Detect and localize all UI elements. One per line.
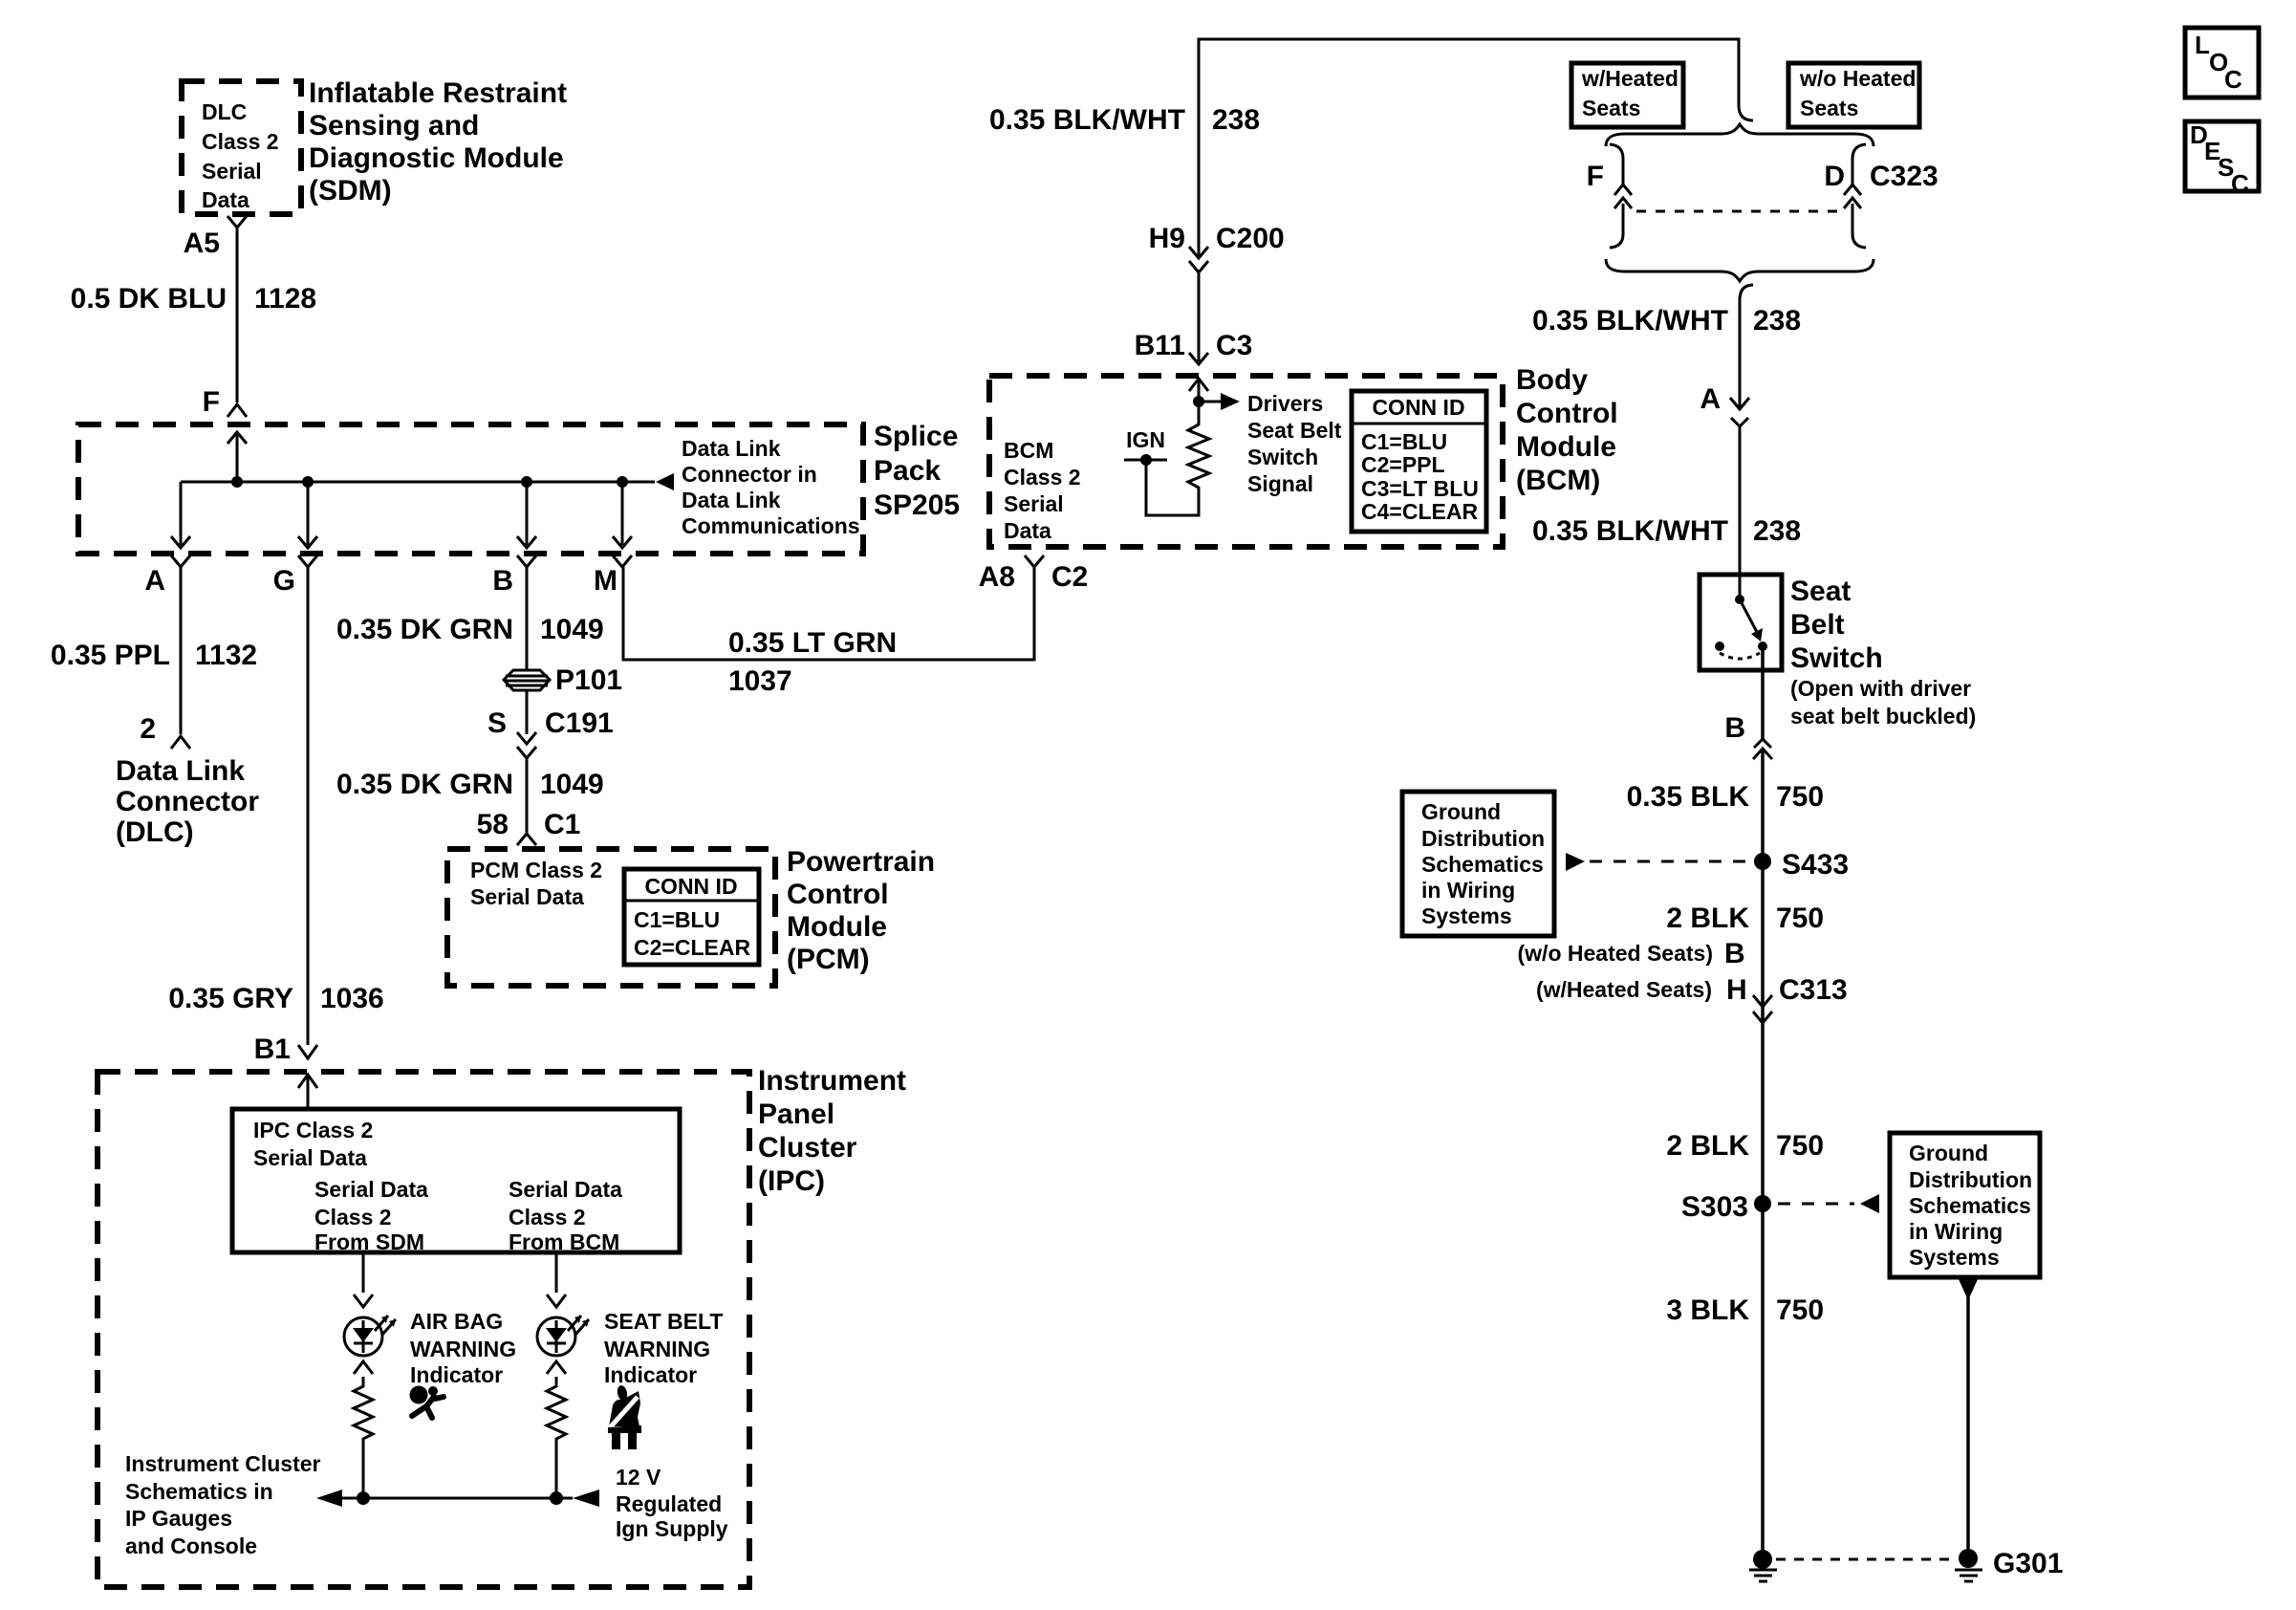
svg-text:Distribution: Distribution bbox=[1421, 826, 1545, 851]
svg-text:0.35 GRY: 0.35 GRY bbox=[168, 983, 293, 1014]
svg-text:C: C bbox=[2231, 169, 2249, 198]
wire drop M inside splice bbox=[621, 482, 624, 545]
svg-text:PCM Class 2: PCM Class 2 bbox=[470, 858, 602, 882]
svg-text:in Wiring: in Wiring bbox=[1909, 1219, 2003, 1244]
label SEAT BELT WARNING Indicator bbox=[604, 1309, 723, 1387]
svg-text:Panel: Panel bbox=[758, 1099, 834, 1130]
connector C313 double chevron down bbox=[1753, 995, 1772, 1007]
svg-text:IP Gauges: IP Gauges bbox=[125, 1506, 232, 1531]
svg-text:(BCM): (BCM) bbox=[1516, 465, 1600, 496]
svg-text:Instrument Cluster: Instrument Cluster bbox=[125, 1451, 321, 1476]
pin A8 C2 chevron below BCM bbox=[1025, 555, 1044, 567]
svg-text:0.35 BLK: 0.35 BLK bbox=[1627, 781, 1750, 813]
node junction dot airbag branch bbox=[357, 1491, 370, 1505]
svg-text:Data Link: Data Link bbox=[682, 488, 781, 512]
arrow Drivers Seat Belt Switch Signal bbox=[1199, 401, 1222, 403]
svg-text:C2=CLEAR: C2=CLEAR bbox=[634, 935, 750, 960]
connector C191 S double chevron bbox=[517, 732, 536, 744]
svg-text:3 BLK: 3 BLK bbox=[1666, 1295, 1749, 1326]
wire B1 arrow into IPC bbox=[307, 1075, 310, 1109]
wire arrow up inside BCM bbox=[1198, 380, 1201, 402]
svg-text:Indicator: Indicator bbox=[604, 1362, 697, 1387]
arrow right pointer bbox=[573, 1490, 599, 1507]
svg-text:Serial Data: Serial Data bbox=[314, 1177, 428, 1202]
svg-text:Splice: Splice bbox=[874, 421, 958, 452]
svg-text:2: 2 bbox=[140, 713, 156, 745]
svg-text:Seats: Seats bbox=[1800, 96, 1858, 120]
svg-text:12 V: 12 V bbox=[616, 1465, 661, 1490]
label AIR BAG WARNING Indicator bbox=[410, 1309, 516, 1387]
box IPC Class 2 Serial Data inner box bbox=[232, 1109, 680, 1252]
svg-text:DLC: DLC bbox=[202, 99, 247, 124]
svg-text:Regulated: Regulated bbox=[616, 1491, 722, 1516]
svg-text:H9: H9 bbox=[1149, 223, 1185, 254]
wire hook at C323 top bbox=[1739, 105, 1753, 120]
icon airbag bbox=[410, 1386, 444, 1419]
svg-text:1037: 1037 bbox=[728, 665, 792, 697]
svg-text:M: M bbox=[594, 565, 617, 597]
svg-text:750: 750 bbox=[1776, 1130, 1824, 1162]
svg-text:750: 750 bbox=[1776, 781, 1824, 813]
wire from box down to G301 ground bbox=[1966, 1279, 1970, 1554]
table CONN ID (PCM) bbox=[624, 869, 759, 965]
svg-text:2 BLK: 2 BLK bbox=[1666, 903, 1749, 934]
svg-text:SP205: SP205 bbox=[874, 490, 960, 521]
label SDM name bbox=[309, 77, 567, 207]
module BCM dashed box bbox=[989, 376, 1503, 547]
svg-text:C191: C191 bbox=[545, 707, 614, 739]
wire from IPC box to airbag LED bbox=[362, 1252, 365, 1293]
label 12 V Regulated Ign Supply bbox=[616, 1465, 728, 1541]
pin M chevron below splice bbox=[613, 555, 632, 567]
svg-text:Inflatable Restraint: Inflatable Restraint bbox=[309, 77, 567, 109]
module PCM dashed box bbox=[447, 849, 775, 986]
svg-text:S: S bbox=[487, 707, 507, 739]
svg-text:in Wiring: in Wiring bbox=[1421, 878, 1515, 903]
wire 1037 LT GRN from BCM A8 to splice M bbox=[623, 567, 1034, 660]
svg-text:Seat: Seat bbox=[1790, 576, 1851, 607]
svg-text:C1=BLU: C1=BLU bbox=[1361, 429, 1447, 454]
svg-text:Signal: Signal bbox=[1247, 471, 1313, 496]
node junction dot IGN bbox=[1140, 454, 1152, 466]
svg-text:IPC Class 2: IPC Class 2 bbox=[253, 1118, 373, 1142]
svg-text:Class 2: Class 2 bbox=[1004, 465, 1081, 490]
svg-text:B: B bbox=[1724, 938, 1745, 969]
switch seat belt box bbox=[1700, 575, 1782, 670]
svg-text:Schematics: Schematics bbox=[1909, 1193, 2031, 1218]
svg-text:F: F bbox=[1587, 161, 1604, 192]
svg-text:Module: Module bbox=[787, 911, 887, 943]
svg-text:Systems: Systems bbox=[1909, 1245, 2000, 1270]
svg-text:Serial Data: Serial Data bbox=[509, 1177, 622, 1202]
svg-text:750: 750 bbox=[1776, 1295, 1824, 1326]
wire 1128 from SDM A5 to splice F bbox=[236, 228, 239, 402]
svg-text:Connector in: Connector in bbox=[682, 462, 817, 487]
svg-text:Switch: Switch bbox=[1247, 445, 1318, 469]
svg-text:Serial: Serial bbox=[202, 159, 262, 184]
svg-text:From BCM: From BCM bbox=[509, 1229, 619, 1254]
svg-text:Body: Body bbox=[1516, 364, 1588, 396]
svg-text:0.35 PPL: 0.35 PPL bbox=[51, 640, 170, 671]
svg-text:Control: Control bbox=[787, 879, 889, 910]
wire ign supply bus bbox=[342, 1497, 573, 1500]
wire drop A inside splice bbox=[180, 482, 183, 545]
svg-text:2 BLK: 2 BLK bbox=[1666, 1130, 1749, 1162]
wire 1049 from splice B to P101 bbox=[526, 567, 529, 670]
svg-text:Schematics in: Schematics in bbox=[125, 1479, 273, 1504]
pin A5 connector chevron bbox=[227, 216, 247, 228]
wire 750 from B to S433 bbox=[1761, 749, 1765, 1559]
wire into switch bbox=[1739, 575, 1742, 599]
svg-text:S433: S433 bbox=[1782, 849, 1849, 881]
wire dashed pointer to lower ground box bbox=[1778, 1203, 1854, 1206]
connector B double chevron up bbox=[1754, 739, 1771, 748]
svg-text:58: 58 bbox=[477, 809, 509, 840]
wire hook below C323 bbox=[1740, 285, 1753, 300]
svg-text:(w/o Heated Seats): (w/o Heated Seats) bbox=[1518, 941, 1714, 966]
wire drop B inside splice bbox=[526, 482, 529, 545]
pin A chevron below splice bbox=[171, 555, 190, 567]
svg-text:Control: Control bbox=[1516, 398, 1618, 429]
box w/o Heated Seats bbox=[1788, 63, 1919, 127]
svg-text:0.35 LT GRN: 0.35 LT GRN bbox=[728, 627, 897, 659]
wire IGN rail bbox=[1124, 459, 1167, 462]
connector C323 right half D bbox=[1844, 144, 1866, 248]
wire below P101 to C191 bbox=[526, 690, 529, 734]
svg-text:Sensing and: Sensing and bbox=[309, 110, 479, 141]
svg-text:(SDM): (SDM) bbox=[309, 175, 392, 207]
svg-text:AIR BAG: AIR BAG bbox=[410, 1309, 503, 1334]
svg-text:Systems: Systems bbox=[1421, 903, 1512, 928]
svg-text:0.35 DK GRN: 0.35 DK GRN bbox=[336, 769, 513, 800]
svg-text:w/o Heated: w/o Heated bbox=[1799, 66, 1916, 91]
label Splice Pack SP205 bbox=[874, 421, 960, 521]
pin B chevron below splice bbox=[517, 555, 536, 567]
svg-text:L: L bbox=[2195, 31, 2210, 59]
svg-text:Connector: Connector bbox=[116, 786, 259, 817]
node junction dot F bbox=[231, 476, 243, 488]
svg-text:1049: 1049 bbox=[540, 614, 604, 645]
box LOC bbox=[2185, 28, 2259, 98]
pin G chevron below splice bbox=[298, 555, 317, 567]
ground symbol G301 bbox=[1955, 1549, 1982, 1581]
svg-text:(Open with driver: (Open with driver bbox=[1790, 676, 1971, 701]
switch contacts bbox=[1715, 595, 1767, 659]
node junction dot G bbox=[302, 476, 314, 488]
svg-text:Cluster: Cluster bbox=[758, 1132, 857, 1164]
box w/Heated Seats bbox=[1571, 63, 1683, 127]
svg-text:Communications: Communications bbox=[682, 513, 860, 538]
wire 1036 from splice G to IPC B1 bbox=[307, 567, 310, 1045]
label Data Link Connector (DLC) bbox=[116, 755, 259, 848]
wire splice bus bbox=[181, 481, 655, 484]
svg-text:Pack: Pack bbox=[874, 455, 941, 487]
wire 1049 from C191 to PCM 58 bbox=[526, 758, 529, 834]
svg-text:Seat Belt: Seat Belt bbox=[1247, 418, 1342, 443]
svg-text:Instrument: Instrument bbox=[758, 1065, 906, 1097]
label BCM name bbox=[1516, 364, 1618, 496]
svg-text:seat belt buckled): seat belt buckled) bbox=[1790, 704, 1976, 729]
brace top of C323 bbox=[1606, 124, 1874, 146]
svg-text:Data: Data bbox=[1004, 518, 1051, 543]
svg-text:B: B bbox=[492, 565, 513, 597]
label Seat Belt Switch bbox=[1790, 576, 1976, 729]
svg-text:0.35 BLK/WHT: 0.35 BLK/WHT bbox=[989, 104, 1185, 136]
pin 2 chevron at DLC bbox=[171, 736, 190, 749]
wire arrow up from bus to F bbox=[236, 433, 239, 482]
svg-text:Diagnostic Module: Diagnostic Module bbox=[309, 142, 564, 174]
svg-text:Distribution: Distribution bbox=[1909, 1167, 2032, 1192]
wire dashed association C323 bbox=[1636, 210, 1841, 213]
svg-text:D: D bbox=[1824, 161, 1845, 192]
svg-text:w/Heated: w/Heated bbox=[1581, 66, 1679, 91]
arrow down from lower ground box bbox=[1959, 1279, 1978, 1300]
svg-text:C323: C323 bbox=[1870, 161, 1939, 192]
svg-text:Schematics: Schematics bbox=[1421, 852, 1544, 877]
svg-text:Module: Module bbox=[1516, 431, 1616, 463]
table CONN ID (BCM) bbox=[1352, 391, 1486, 532]
svg-text:Data: Data bbox=[202, 187, 249, 212]
svg-text:C313: C313 bbox=[1779, 974, 1848, 1006]
ground symbol left bbox=[1749, 1550, 1777, 1581]
svg-text:Belt: Belt bbox=[1790, 609, 1845, 641]
svg-text:C200: C200 bbox=[1216, 223, 1285, 254]
svg-text:A: A bbox=[144, 565, 165, 597]
svg-text:238: 238 bbox=[1212, 104, 1260, 136]
svg-text:0.5 DK BLU: 0.5 DK BLU bbox=[71, 283, 227, 315]
svg-text:Serial Data: Serial Data bbox=[253, 1145, 367, 1170]
node S303 junction dot bbox=[1754, 1195, 1771, 1212]
svg-text:238: 238 bbox=[1753, 515, 1801, 547]
svg-text:A8: A8 bbox=[979, 561, 1015, 593]
svg-text:and Console: and Console bbox=[125, 1534, 257, 1558]
box DESC bbox=[2185, 120, 2259, 198]
svg-text:B1: B1 bbox=[254, 1033, 291, 1065]
svg-text:B: B bbox=[1724, 712, 1745, 744]
svg-text:750: 750 bbox=[1776, 903, 1824, 934]
svg-text:(PCM): (PCM) bbox=[787, 944, 870, 975]
svg-text:0.35 BLK/WHT: 0.35 BLK/WHT bbox=[1532, 515, 1728, 547]
node junction dot seat belt branch bbox=[550, 1491, 563, 1505]
label Data Link Connector note inside splice box bbox=[682, 436, 860, 538]
module IPC dashed box bbox=[97, 1072, 749, 1587]
svg-text:CONN ID: CONN ID bbox=[1372, 395, 1464, 420]
svg-text:Seats: Seats bbox=[1582, 96, 1640, 120]
svg-text:1049: 1049 bbox=[540, 769, 604, 800]
resistor in seat belt LED branch bbox=[547, 1377, 566, 1498]
pin F connector chevron bbox=[227, 404, 247, 417]
resistor BCM pull-up bbox=[1146, 402, 1209, 515]
wire 1132 from splice A to DLC bbox=[180, 567, 183, 734]
svg-text:BCM: BCM bbox=[1004, 438, 1053, 463]
svg-text:C3=LT BLU: C3=LT BLU bbox=[1361, 476, 1479, 501]
connector C200 H9 double chevron bbox=[1189, 247, 1208, 258]
wire 238 top run from BCM to C323 bbox=[1199, 39, 1739, 256]
arrow left pointer bbox=[316, 1490, 342, 1507]
svg-text:1128: 1128 bbox=[254, 283, 316, 315]
svg-text:Class 2: Class 2 bbox=[509, 1205, 586, 1229]
svg-text:P101: P101 bbox=[555, 664, 622, 696]
svg-text:Switch: Switch bbox=[1790, 642, 1883, 674]
svg-text:C1: C1 bbox=[544, 809, 580, 840]
node junction dot BCM bbox=[1193, 396, 1204, 407]
svg-text:CONN ID: CONN ID bbox=[644, 874, 737, 899]
module SDM (Inflatable Restraint Sensing and Diagnostic Module) dashed box bbox=[182, 81, 301, 214]
pin B11 C3 chevron bbox=[1189, 353, 1208, 364]
svg-text:WARNING: WARNING bbox=[410, 1337, 516, 1361]
svg-text:C: C bbox=[2224, 65, 2242, 94]
svg-text:Ign Supply: Ign Supply bbox=[616, 1516, 728, 1541]
arrow bus end pointer bbox=[656, 473, 674, 490]
svg-text:C4=CLEAR: C4=CLEAR bbox=[1361, 499, 1478, 524]
svg-text:1132: 1132 bbox=[195, 640, 257, 671]
svg-text:Class 2: Class 2 bbox=[314, 1205, 392, 1229]
svg-text:F: F bbox=[203, 386, 220, 418]
pin 58 C1 chevron at PCM bbox=[517, 834, 536, 845]
icon seat belt bbox=[604, 1384, 641, 1449]
wire 238 from A to seat belt switch bbox=[1739, 426, 1742, 575]
svg-text:A: A bbox=[1700, 383, 1721, 415]
wire 238 from C323 to A bbox=[1739, 298, 1742, 409]
svg-text:A5: A5 bbox=[184, 228, 220, 259]
svg-text:Indicator: Indicator bbox=[410, 1362, 503, 1387]
label PCM name bbox=[787, 846, 935, 975]
svg-text:SEAT BELT: SEAT BELT bbox=[604, 1309, 723, 1334]
svg-text:C3: C3 bbox=[1216, 330, 1252, 361]
label BCM Class 2 Serial Data bbox=[1004, 438, 1081, 543]
svg-text:(w/Heated Seats): (w/Heated Seats) bbox=[1536, 977, 1712, 1002]
node S433 junction dot bbox=[1754, 853, 1771, 870]
svg-text:C2=PPL: C2=PPL bbox=[1361, 452, 1445, 477]
svg-text:0.35 BLK/WHT: 0.35 BLK/WHT bbox=[1532, 305, 1728, 337]
label IPC name bbox=[758, 1065, 906, 1197]
svg-text:B11: B11 bbox=[1135, 330, 1185, 361]
svg-text:238: 238 bbox=[1753, 305, 1801, 337]
LED seat belt warning indicator bbox=[537, 1316, 589, 1356]
pin B1 chevron at IPC bbox=[298, 1045, 317, 1058]
resistor in airbag LED branch bbox=[354, 1377, 373, 1498]
node junction dot B bbox=[521, 476, 532, 488]
connector A double chevron bbox=[1730, 398, 1749, 409]
label Instrument Cluster Schematics in IP Gauges and Console bbox=[125, 1451, 321, 1558]
LED airbag warning indicator bbox=[344, 1316, 396, 1356]
svg-text:IGN: IGN bbox=[1126, 427, 1165, 452]
svg-text:1036: 1036 bbox=[320, 983, 384, 1014]
splice P101 pass-through grommet bbox=[504, 670, 550, 690]
wire from IPC box to seat belt LED bbox=[555, 1252, 558, 1293]
svg-text:(IPC): (IPC) bbox=[758, 1165, 825, 1197]
brace bottom of C323 bbox=[1606, 259, 1874, 281]
svg-text:Serial: Serial bbox=[1004, 491, 1064, 516]
box Ground Distribution Schematics (upper) bbox=[1402, 792, 1554, 936]
splice pack SP205 dashed box bbox=[78, 424, 863, 554]
svg-text:Powertrain: Powertrain bbox=[787, 846, 935, 878]
svg-text:G301: G301 bbox=[1993, 1548, 2063, 1579]
svg-text:0.35 DK GRN: 0.35 DK GRN bbox=[336, 614, 513, 645]
svg-text:(DLC): (DLC) bbox=[116, 816, 194, 848]
wire out of switch to B bbox=[1761, 646, 1765, 739]
wire dashed between grounds bbox=[1776, 1558, 1955, 1561]
node junction dot M bbox=[617, 476, 628, 488]
svg-text:Ground: Ground bbox=[1421, 799, 1501, 824]
wire from C200 to BCM B11 bbox=[1198, 272, 1201, 361]
svg-text:From SDM: From SDM bbox=[314, 1229, 424, 1254]
svg-text:Ground: Ground bbox=[1909, 1141, 1988, 1165]
svg-text:C2: C2 bbox=[1051, 561, 1088, 593]
svg-text:G: G bbox=[273, 565, 295, 597]
svg-text:WARNING: WARNING bbox=[604, 1337, 710, 1361]
connector C323 left half F bbox=[1610, 144, 1632, 248]
svg-text:Drivers: Drivers bbox=[1247, 391, 1323, 416]
svg-text:Data Link: Data Link bbox=[682, 436, 781, 461]
arrow pointer from box to S433 bbox=[1566, 853, 1585, 871]
svg-text:Data Link: Data Link bbox=[116, 755, 245, 787]
svg-text:C1=BLU: C1=BLU bbox=[634, 907, 720, 932]
svg-text:Serial Data: Serial Data bbox=[470, 884, 584, 909]
svg-text:Class 2: Class 2 bbox=[202, 129, 279, 154]
box Ground Distribution Schematics (lower) bbox=[1890, 1133, 2040, 1277]
svg-text:H: H bbox=[1726, 974, 1747, 1006]
wire drop G inside splice bbox=[307, 482, 310, 545]
svg-text:S303: S303 bbox=[1681, 1191, 1748, 1223]
